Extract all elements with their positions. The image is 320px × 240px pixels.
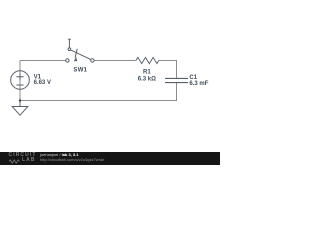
svg-text:6.3 kΩ: 6.3 kΩ	[138, 77, 156, 83]
svg-text:SW1: SW1	[73, 67, 87, 73]
svg-text:6.3 mF: 6.3 mF	[189, 81, 208, 87]
svg-text:6.63 V: 6.63 V	[34, 80, 51, 86]
svg-text:R1: R1	[143, 70, 151, 76]
